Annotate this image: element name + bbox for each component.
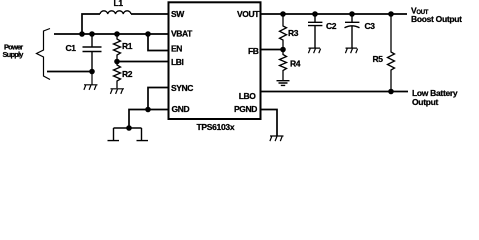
svg-text:VBAT: VBAT <box>171 29 193 39</box>
wire: SYNC <box>148 88 168 110</box>
wire: riser to SW line <box>82 14 100 34</box>
svg-text:Output: Output <box>412 97 439 107</box>
svg-text:R1: R1 <box>122 41 133 51</box>
svg-text:TPS6103x: TPS6103x <box>197 122 235 132</box>
wire: L1 to SW pin <box>131 13 168 15</box>
chip U1 TPS6103x <box>169 2 261 119</box>
svg-text:Boost Output: Boost Output <box>411 14 462 24</box>
resistor R1 <box>114 34 121 62</box>
wire: PGND <box>261 110 277 136</box>
power supply brace <box>37 29 51 80</box>
svg-text:FB: FB <box>248 46 259 56</box>
inductor L1 <box>100 11 131 14</box>
wire: LBO to output <box>261 91 408 93</box>
svg-text:PGND: PGND <box>234 104 257 114</box>
svg-text:R2: R2 <box>122 69 133 79</box>
wire: VBAT rail from supply to chip <box>54 33 168 35</box>
svg-text:R4: R4 <box>290 59 301 69</box>
svg-text:GND: GND <box>172 104 190 114</box>
ground (R2) <box>110 89 124 94</box>
svg-text:SYNC: SYNC <box>171 83 193 93</box>
svg-text:L1: L1 <box>114 0 124 8</box>
svg-text:LBI: LBI <box>171 57 184 67</box>
ground (GND chassis, two feet) <box>108 128 149 141</box>
wire: LBI <box>117 61 168 63</box>
ground (C2) <box>308 48 320 53</box>
ground (R4, bar style) <box>277 81 290 86</box>
svg-text:C3: C3 <box>365 21 376 31</box>
svg-text:VOUT: VOUT <box>237 9 260 19</box>
capacitor C1 <box>83 34 102 72</box>
svg-text:SW: SW <box>171 9 185 19</box>
svg-text:Supply: Supply <box>3 50 25 59</box>
wire: GND <box>129 110 168 129</box>
ground (PGND) <box>270 136 284 141</box>
wire: supply minus line <box>47 71 92 73</box>
capacitor C2 <box>308 14 322 48</box>
resistor R2 <box>114 62 121 89</box>
resistor R4 <box>280 50 287 81</box>
ground (C3) <box>345 48 357 53</box>
wire: FB <box>261 49 283 51</box>
resistor R5 <box>388 14 395 92</box>
svg-text:LBO: LBO <box>239 91 257 101</box>
wire: EN from VBAT rail <box>148 34 168 51</box>
ground (C1 / supply) <box>84 72 98 90</box>
svg-text:EN: EN <box>171 44 182 54</box>
resistor R3 <box>280 14 287 50</box>
wire: VOUT rail <box>261 13 407 15</box>
svg-text:C1: C1 <box>66 43 77 53</box>
svg-text:R3: R3 <box>288 28 299 38</box>
svg-text:R5: R5 <box>373 54 384 64</box>
svg-text:C2: C2 <box>326 21 337 31</box>
capacitor C3 (polarized) <box>345 14 360 48</box>
